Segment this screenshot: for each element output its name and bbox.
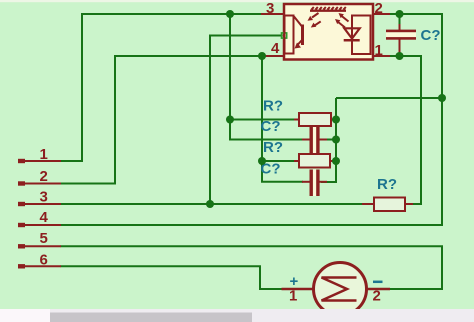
wire branch from node (262,56) down to cap C2 left lead xyxy=(262,56,303,182)
svg-text:3: 3 xyxy=(40,189,48,206)
opto U1 pin 1 stub xyxy=(373,55,390,57)
svg-text:R?: R? xyxy=(263,139,283,156)
opto U1 photodiode xyxy=(344,28,360,40)
capacitor C1 xyxy=(302,127,327,154)
svg-text:R?: R? xyxy=(263,98,283,115)
junction node (399,56) xyxy=(396,52,404,60)
connector pin 2 xyxy=(18,181,61,185)
wire net3: connector pin3 to R3 left lead xyxy=(61,203,364,205)
wire cap C3 top lead from node (399,14) xyxy=(399,14,401,27)
junction node (262,161) xyxy=(258,157,266,165)
svg-text:1: 1 xyxy=(40,146,48,163)
wire net4: connector pin4 right and up to opto pin2 xyxy=(61,14,443,225)
wire net6: connector pin6 to summing amp pin1 xyxy=(61,266,284,289)
opto U1 inner left box xyxy=(285,16,294,54)
svg-text:2: 2 xyxy=(375,0,383,17)
opto U1 inner right box xyxy=(352,16,371,55)
summing amp minus label xyxy=(373,281,383,284)
opto U1 light arrows from diode xyxy=(335,13,349,28)
wire net2: connector pin2 to opto pin4 xyxy=(61,56,264,184)
wire from opto pin1 down to R3 right lead xyxy=(390,56,421,204)
top white strip xyxy=(0,0,474,2)
capacitor C3 xyxy=(386,24,416,56)
wire net1: connector pin1 to opto pin3 xyxy=(61,14,263,161)
wire branch to R1 left lead xyxy=(230,119,295,121)
junction node (210,204) xyxy=(206,200,214,208)
connector pin 5 xyxy=(18,244,61,248)
opto U1 pin 4 stub xyxy=(263,55,284,57)
resistor R3 xyxy=(362,198,413,212)
junction node (336,161) xyxy=(332,157,340,165)
opto U1 phototransistor xyxy=(294,17,303,49)
junction node (336,140) xyxy=(332,136,340,144)
wire branch from node (230,14) down to cap C1 left lead xyxy=(230,14,303,140)
connector pin 1 xyxy=(18,159,61,163)
svg-text:3: 3 xyxy=(266,0,274,17)
wire RC cluster right bus xyxy=(321,98,336,182)
junction node (336,119) xyxy=(332,116,340,124)
junction node (230,119) xyxy=(226,116,234,124)
opto U1 pin 3 stub xyxy=(261,13,284,15)
opto U1 light arrows to transistor xyxy=(308,13,321,28)
junction node (442,98) xyxy=(438,94,446,102)
dangling wire end square xyxy=(282,33,287,38)
svg-text:C?: C? xyxy=(421,27,441,44)
svg-text:R?: R? xyxy=(377,176,397,193)
svg-text:2: 2 xyxy=(373,288,381,305)
junction node (262,56) xyxy=(258,52,266,60)
connector pin 6 xyxy=(18,264,61,268)
connector pin 3 xyxy=(18,202,61,206)
wire branch to R2 left lead xyxy=(262,160,295,162)
opto-isolator U1 body xyxy=(284,4,373,60)
opto U1 pin 2 stub xyxy=(373,13,390,15)
svg-text:5: 5 xyxy=(40,230,48,247)
resistor R2 xyxy=(294,154,336,168)
svg-text:6: 6 xyxy=(40,252,48,269)
svg-text:C?: C? xyxy=(261,118,281,135)
svg-text:4: 4 xyxy=(40,209,49,226)
scrollbar track xyxy=(0,309,474,322)
wire branch at y=98 from node (442,98) to RC bus top xyxy=(336,97,442,99)
opto U1 reflective surface xyxy=(310,7,346,11)
svg-text:1: 1 xyxy=(289,288,297,305)
scrollbar corner xyxy=(0,309,50,322)
capacitor C2 xyxy=(302,170,327,197)
resistor R1 xyxy=(294,113,336,126)
scrollbar thumb xyxy=(50,313,252,322)
connector pin 4 xyxy=(18,223,61,227)
junction node (230,14) xyxy=(226,10,234,18)
wire net5: connector pin5 to summing amp pin2 xyxy=(61,246,443,289)
svg-text:4: 4 xyxy=(271,40,280,57)
svg-text:1: 1 xyxy=(375,42,383,59)
junction node (399,14) xyxy=(396,10,404,18)
wire cap C1 right lead to bus xyxy=(325,139,336,141)
svg-text:2: 2 xyxy=(40,168,48,185)
summing amplifier U2 xyxy=(282,263,391,316)
wire branch from node (210,204) up to dangling end near opto xyxy=(210,36,283,205)
